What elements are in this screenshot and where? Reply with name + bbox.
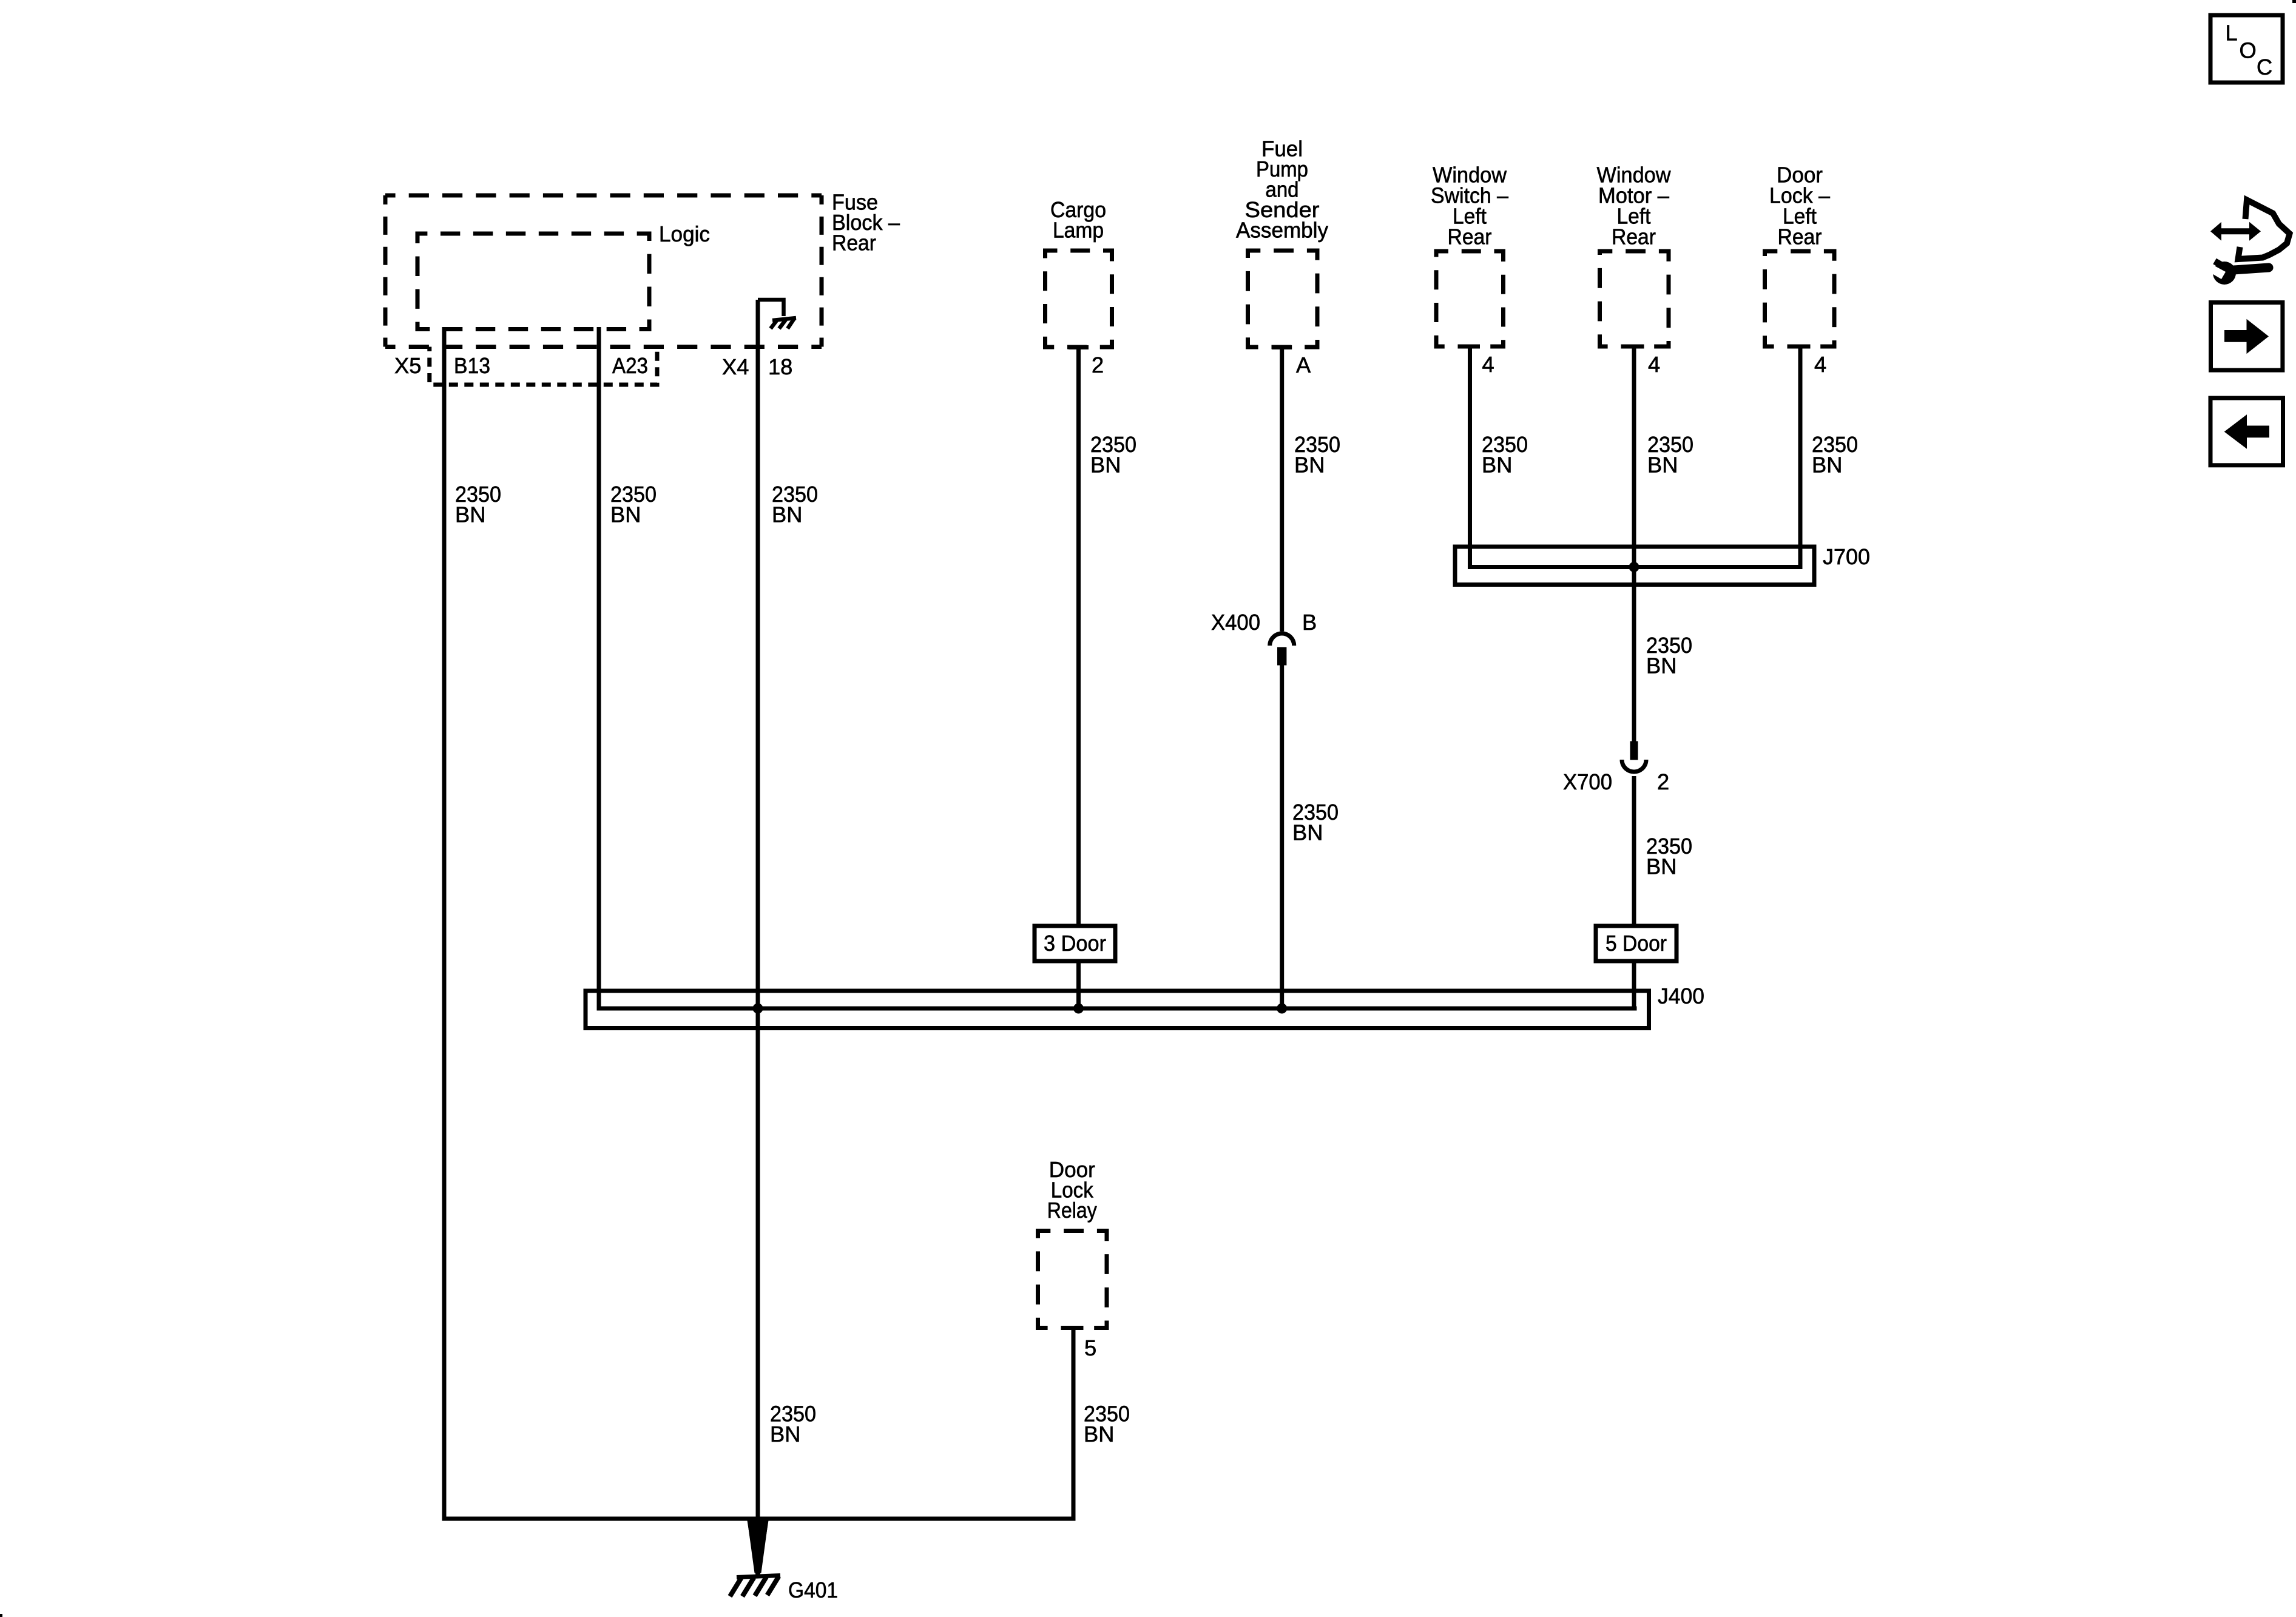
- wrench and arrow icon: [2207, 200, 2290, 285]
- svg-text:Logic: Logic: [659, 221, 710, 246]
- logic dashed box: [417, 234, 649, 329]
- cargo lamp pin bar: [1069, 345, 1089, 349]
- next page arrow icon: [2211, 303, 2283, 371]
- window switch pin bar: [1460, 345, 1480, 349]
- fuse block outer dashed box: [385, 195, 822, 347]
- svg-text:4: 4: [1482, 352, 1494, 377]
- svg-text:2: 2: [1092, 353, 1104, 377]
- svg-text:BN: BN: [1090, 453, 1121, 478]
- svg-text:X400: X400: [1211, 610, 1260, 635]
- ground funnel left edge: [749, 1517, 757, 1573]
- X700 wire 2350 BN label: [1646, 834, 1692, 879]
- junction X4-18 wire on J400: [753, 1004, 763, 1014]
- wire X4-18 vertical: [756, 300, 760, 1576]
- svg-text:A23: A23: [612, 353, 648, 378]
- door lock wire 2350 BN label: [1812, 432, 1858, 478]
- svg-text:BN: BN: [455, 502, 485, 527]
- motor wire 2350 BN label: [1647, 432, 1693, 478]
- window switch label: [1431, 163, 1509, 249]
- fuel pump pin bar: [1272, 345, 1292, 349]
- connector X400: [1270, 633, 1294, 666]
- svg-text:O: O: [2240, 38, 2257, 63]
- 5 Door box: [1596, 926, 1676, 961]
- svg-text:X5: X5: [394, 353, 421, 378]
- svg-text:4: 4: [1814, 352, 1826, 377]
- door lock dashed box: [1765, 251, 1835, 346]
- cargo wire 2350 BN label: [1090, 432, 1136, 478]
- svg-text:2: 2: [1657, 769, 1669, 794]
- svg-text:G401: G401: [788, 1578, 838, 1602]
- 3 door lower wire: [1076, 961, 1081, 1008]
- junction on J700: [1629, 562, 1639, 572]
- X4-18 wire lower 2350 BN label: [770, 1402, 816, 1447]
- J400 splice pack box: [586, 991, 1649, 1028]
- svg-text:BN: BN: [1292, 820, 1323, 845]
- fuse block label: [832, 190, 900, 255]
- fuel pump label: [1236, 137, 1329, 243]
- wire 2350 BN label (X4-18): [772, 482, 818, 527]
- svg-text:BN: BN: [1812, 453, 1842, 478]
- junction fuel wire on J400: [1277, 1004, 1287, 1014]
- svg-text:X700: X700: [1563, 769, 1612, 794]
- svg-text:Rear: Rear: [1612, 224, 1656, 249]
- 3 Door box: [1035, 926, 1115, 961]
- svg-text:C: C: [2257, 55, 2272, 79]
- window switch dashed box: [1436, 251, 1504, 346]
- ground funnel right edge: [759, 1517, 767, 1573]
- window switch wire + J700 bus bar + door lock riser: [1470, 346, 1801, 567]
- fuel wire 2350 BN label lower: [1292, 800, 1339, 845]
- cargo lamp dashed box: [1045, 251, 1112, 347]
- J700 splice pack box: [1455, 547, 1814, 585]
- connector X700: [1622, 741, 1646, 772]
- svg-text:BN: BN: [1084, 1422, 1114, 1447]
- wire 2350 BN label (B13): [455, 482, 501, 527]
- svg-text:3 Door: 3 Door: [1044, 931, 1106, 956]
- 5-door riser to J400: [1632, 961, 1636, 1011]
- window motor pin bar: [1624, 345, 1644, 349]
- svg-text:BN: BN: [610, 502, 641, 527]
- wire X700 to 5 door: [1632, 776, 1636, 926]
- window motor wire: [1632, 346, 1636, 741]
- door lock relay dashed box: [1038, 1231, 1107, 1328]
- svg-text:X4: X4: [722, 354, 749, 379]
- ground symbol inside fuse block: [758, 300, 796, 329]
- svg-text:BN: BN: [772, 502, 802, 527]
- svg-text:BN: BN: [1647, 453, 1678, 478]
- relay wire 2350 BN label: [1084, 1402, 1130, 1447]
- svg-text:B: B: [1302, 610, 1317, 635]
- switch wire 2350 BN label: [1482, 432, 1528, 478]
- wire A23 + J400 bus bar: [599, 327, 1637, 1008]
- window motor dashed box: [1600, 251, 1669, 346]
- fuel pump wire lower: [1280, 666, 1284, 1009]
- gap in ground bus at G401 funnel: [748, 1516, 768, 1522]
- connector X5 dashed box: [430, 347, 657, 385]
- svg-text:BN: BN: [770, 1422, 800, 1447]
- svg-text:BN: BN: [1646, 653, 1676, 678]
- svg-text:5: 5: [1084, 1335, 1096, 1360]
- ground G401 funnel: [747, 1517, 769, 1576]
- door lock relay pin bar: [1064, 1326, 1084, 1330]
- fuel pump dashed box: [1248, 251, 1318, 347]
- svg-text:18: 18: [768, 354, 792, 379]
- page corner mark top right: [2292, 0, 2296, 3]
- svg-text:B13: B13: [454, 353, 490, 378]
- J700 to X700 wire 2350 BN label: [1646, 633, 1692, 678]
- door lock relay label: [1047, 1157, 1098, 1223]
- svg-text:L: L: [2226, 21, 2238, 46]
- cargo lamp wire: [1076, 347, 1081, 926]
- previous page arrow icon: [2210, 398, 2283, 465]
- fuel pump wire upper: [1280, 347, 1284, 632]
- svg-text:Rear: Rear: [1448, 224, 1492, 249]
- svg-text:Assembly: Assembly: [1236, 218, 1329, 243]
- svg-text:J700: J700: [1823, 544, 1870, 569]
- svg-text:BN: BN: [1646, 854, 1676, 879]
- door lock pin bar: [1791, 345, 1811, 349]
- svg-text:Lamp: Lamp: [1053, 218, 1104, 243]
- page corner mark bottom left: [0, 1614, 2, 1617]
- window motor label: [1597, 163, 1672, 249]
- fuel wire 2350 BN label upper: [1294, 432, 1340, 478]
- svg-text:5 Door: 5 Door: [1606, 931, 1667, 956]
- svg-text:Rear: Rear: [1778, 224, 1822, 249]
- svg-text:BN: BN: [1482, 453, 1512, 478]
- door lock label: [1769, 163, 1831, 249]
- junction cargo wire on J400: [1073, 1004, 1084, 1014]
- LOC icon box: [2210, 15, 2283, 83]
- svg-text:Rear: Rear: [832, 231, 876, 255]
- ground G401 symbol: [730, 1576, 780, 1597]
- svg-text:BN: BN: [1294, 453, 1325, 478]
- svg-text:4: 4: [1648, 352, 1660, 377]
- svg-text:J400: J400: [1658, 984, 1704, 1008]
- wire B13 to ground bus + bottom horizontal + door lock relay riser: [444, 327, 1073, 1519]
- wire 2350 BN label (A23): [610, 482, 657, 527]
- svg-text:A: A: [1296, 353, 1311, 377]
- svg-text:Relay: Relay: [1047, 1198, 1098, 1223]
- cargo lamp label: [1050, 197, 1106, 243]
